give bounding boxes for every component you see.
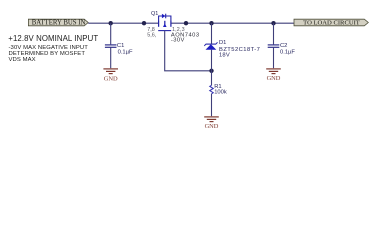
- svg-text:100k: 100k: [214, 90, 227, 96]
- svg-text:5,6,: 5,6,: [147, 33, 156, 39]
- capacitor C1: [105, 23, 117, 68]
- svg-text:GND: GND: [205, 123, 219, 130]
- svg-text:18V: 18V: [219, 52, 230, 58]
- node junction left of Q1: [142, 21, 146, 25]
- ground under C2: [266, 69, 281, 82]
- ground under C1: [103, 69, 118, 82]
- node junction at D1 top: [209, 21, 213, 25]
- svg-text:Q1: Q1: [151, 11, 158, 17]
- transistor Q1 gate bar: [158, 30, 171, 32]
- node junction at C1: [109, 21, 113, 25]
- svg-text:GND: GND: [104, 75, 118, 82]
- resistor R1: [210, 71, 213, 116]
- svg-text:-30V: -30V: [171, 37, 185, 43]
- port BATTERY BUS IN: [28, 19, 88, 26]
- transistor Q1 body diode loop: [159, 14, 171, 21]
- transistor Q1 channel bars: [159, 21, 171, 27]
- note -30V MAX NEGATIVE INPUT ...: [9, 46, 88, 63]
- wire Q1 gate down and right to junction: [165, 31, 212, 71]
- node junction gate/D1/R1: [209, 69, 213, 73]
- node junction right of Q1: [184, 21, 188, 25]
- wire D1 node to C2 node: [212, 22, 274, 24]
- svg-text:0.1µF: 0.1µF: [280, 50, 295, 56]
- svg-text:D1: D1: [219, 40, 226, 46]
- svg-text:GND: GND: [267, 75, 281, 82]
- svg-text:C1: C1: [117, 43, 124, 49]
- svg-text:0.1µF: 0.1µF: [118, 49, 133, 55]
- wire C2 node to load flag: [274, 22, 295, 24]
- svg-text:BATTERY BUS IN: BATTERY BUS IN: [32, 20, 86, 27]
- ground under R1: [204, 117, 219, 130]
- diode D1 zener: [204, 23, 217, 71]
- capacitor C2: [268, 23, 280, 68]
- node junction at C2: [271, 21, 275, 25]
- svg-text:TO LOAD CIRCUIT: TO LOAD CIRCUIT: [303, 20, 360, 27]
- svg-text:C2: C2: [280, 43, 287, 49]
- wire battery flag to C1 node: [88, 22, 111, 24]
- port TO LOAD CIRCUIT: [294, 19, 368, 26]
- note +12.8V NOMINAL INPUT: [8, 34, 98, 43]
- wire C1 node to Q1 source pin: [111, 22, 159, 24]
- wire Q1 drain pin to D1 node: [171, 22, 212, 24]
